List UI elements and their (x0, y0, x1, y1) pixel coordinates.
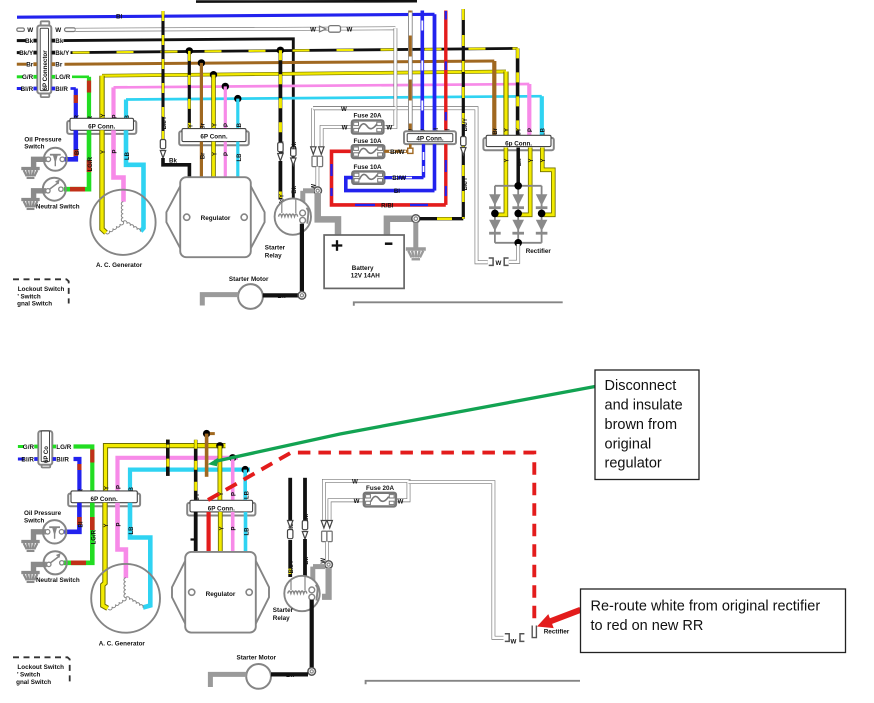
wire LB pin to Regulator (bottom) (244, 512, 248, 553)
wire LB pin to Regulator (236, 142, 239, 178)
wire Bk/Y lower into relay (bottom) (288, 540, 292, 577)
terminal ring (starter motor) (298, 292, 306, 300)
wire Bk lower into relay (bottom) (303, 539, 307, 577)
svg-text:P: P (232, 492, 238, 496)
connector 6P Connector (partial, bottom panel) (42, 432, 51, 468)
wire LB horizontal (bottom panel) (130, 470, 250, 492)
connector 4P Conn. (404, 131, 456, 144)
svg-text:Bl: Bl (116, 14, 123, 21)
svg-text:P: P (117, 485, 123, 489)
wire P vertical to 6P Conn (middle, bottom) (231, 458, 235, 501)
svg-text:Y: Y (212, 152, 218, 156)
wire R loop (R/Bl) fuse 10A-1 (332, 151, 446, 205)
connector bullet pair on Bk/Y relay wire (278, 143, 283, 152)
wire Br/W from fuse to 4P Conn (384, 150, 412, 153)
terminal ring (starter motor, bottom) (308, 668, 316, 676)
wire Bk cropped line (top edge) (196, 0, 417, 3)
wire W2 line (to rectifier) (313, 108, 488, 262)
svg-text:W: W (27, 27, 33, 34)
svg-text:6P Conn.: 6P Conn. (208, 506, 235, 513)
svg-text:A. C. Generator: A. C. Generator (99, 640, 146, 647)
junction dot Br at x201 (198, 59, 205, 66)
svg-text:LG/R: LG/R (55, 74, 70, 81)
svg-text:Bk/Y: Bk/Y (463, 118, 469, 131)
svg-text:LB: LB (129, 526, 135, 535)
connector bullet pair on Bk/Y (bottom) (288, 521, 293, 529)
wire Y rectifier phase 3 (542, 148, 553, 215)
wire Bk/Y battery negative (420, 217, 464, 220)
connector 6P Connector (left vertical) (41, 21, 50, 97)
component Battery 12V 14AH (324, 235, 404, 288)
svg-text:Rectifier: Rectifier (526, 248, 552, 255)
cable ground stem (battery) (413, 223, 418, 249)
wire P vertical to 6P Conn (middle) (224, 86, 227, 129)
component Regulator (bottom) (172, 561, 185, 624)
wire Bk/Y corner to 6p Conn (right) (516, 48, 520, 135)
cable battery - to frame (387, 219, 412, 236)
dashed box: other switches (top panel) (13, 279, 69, 303)
wire LG/R vertical to 6P Conn (87, 77, 91, 119)
wire Bl/W from fuse to 4P Conn (384, 176, 423, 179)
svg-text:W: W (310, 27, 316, 34)
wire Bk jog into Regulator (163, 158, 189, 178)
svg-text:Starter: Starter (273, 607, 294, 614)
junction dot LB at x237 (234, 95, 241, 102)
wire P bus (horizontal) (114, 84, 530, 87)
wire Bl pin from 4P Conn (433, 144, 437, 191)
svg-text:R/Bl: R/Bl (381, 203, 394, 210)
junction dot Bk/Y at x280 (277, 47, 284, 54)
svg-text:Re-route white from original r: Re-route white from original rectifier (591, 599, 821, 615)
svg-text:Fuse 10A: Fuse 10A (354, 164, 382, 171)
wire W bus (horizontal) (65, 28, 76, 32)
svg-text:LG/R: LG/R (91, 529, 97, 544)
svg-text:G/R: G/R (23, 444, 35, 451)
svg-text:W: W (55, 27, 61, 34)
wire Y vertical to 6P Conn (middle) (211, 75, 216, 129)
svg-text:Regulator: Regulator (206, 591, 236, 598)
svg-text:6P Co: 6P Co (44, 446, 50, 463)
connector receptacle W (bottom) (322, 531, 327, 541)
svg-text:Battery: Battery (352, 265, 374, 272)
wire Bk/Y to Starter Relay (278, 50, 282, 142)
svg-text:Neutral Switch: Neutral Switch (36, 577, 80, 584)
wire LB vertical to 6P Conn (middle, bottom) (243, 470, 247, 501)
wire Bl/R corner to 6P Conn (bottom) (74, 459, 80, 491)
wire Bl bus (horizontal, top) (17, 14, 435, 17)
wire Br corner to 6p Conn (right) (492, 61, 496, 136)
frame line (cropped harness, bottom panel) (366, 681, 580, 685)
wire Bl/R vertical to 6P Conn (74, 89, 78, 119)
wire LB corner to 6p Conn (right) (540, 96, 544, 135)
svg-text:Y: Y (529, 159, 535, 163)
wire Y bus (horizontal) (102, 72, 506, 76)
connector bullet pair on Bk relay wire (291, 147, 296, 156)
wire P horizontal (bottom panel) (118, 458, 239, 491)
wire W drop from Fuse 20A (322, 127, 353, 146)
ground (oil switch, bottom) (21, 540, 39, 543)
wire W fuse-left drop (bottom) (330, 500, 364, 520)
svg-text:Rectifier: Rectifier (544, 629, 570, 636)
wire W to relay terminal (bottom) (325, 542, 329, 561)
svg-text:’ Switch: ’ Switch (17, 671, 41, 678)
annotation green leader line (disconnect brown) (215, 387, 596, 462)
connector bullet pair on Bk (bottom) (302, 521, 307, 530)
wire Y rectifier phase 2 (520, 148, 530, 215)
connector 6P Conn. (middle, bottom) (187, 503, 255, 516)
wire LB into A.C. Generator (bottom) (130, 503, 150, 608)
wire Bk pin to Regulator (bottom) (194, 512, 198, 553)
wire W to relay terminal (315, 167, 319, 188)
svg-text:regulator: regulator (605, 456, 662, 472)
wire Bk/Y stub (floating, bottom) (166, 440, 170, 476)
junction dot rectifier bottom (W) (514, 239, 522, 247)
svg-text:brown from: brown from (605, 417, 678, 433)
wire Y vertical to 6P Conn (99, 76, 104, 119)
junction dot Y (bottom) (216, 442, 223, 449)
svg-text:Oil Pressure: Oil Pressure (24, 510, 62, 517)
wire Bk/Y vertical to 6P Conn (middle) (188, 51, 191, 129)
wire LB bus (horizontal) (126, 96, 542, 99)
wire W top line (bottom panel) (324, 481, 409, 520)
wire LB vertical to 6P Conn (124, 100, 128, 119)
svg-text:Y: Y (101, 150, 107, 154)
svg-text:Br: Br (26, 62, 34, 69)
svg-text:Starter Motor: Starter Motor (237, 654, 277, 661)
ground (neutral switch) (21, 198, 39, 201)
svg-text:Y: Y (219, 527, 225, 531)
svg-text:12V 14AH: 12V 14AH (351, 272, 381, 279)
component Rectifier (diode bridge) (495, 185, 542, 187)
wire Bk rectifier centre (516, 148, 520, 186)
svg-text:Relay: Relay (265, 252, 282, 259)
ground (battery) (406, 247, 426, 251)
wire Bk from relay to starter motor ring (300, 224, 304, 292)
svg-text:LB: LB (245, 527, 251, 536)
junction dot P at x225 (222, 83, 229, 90)
cable starter motor lead (left) (202, 295, 238, 306)
svg-text:Br/W: Br/W (390, 149, 405, 156)
svg-text:Y: Y (505, 128, 511, 132)
component Regulator (original) (166, 186, 180, 248)
connector bullets W pair (311, 147, 316, 155)
svg-text:Bl: Bl (394, 188, 400, 195)
cable relay to battery + (318, 193, 338, 236)
wire ground lead (neutral switch, bottom) (34, 564, 47, 571)
svg-text:6P Conn.: 6P Conn. (200, 134, 227, 141)
junction dot LB (bottom) (242, 466, 249, 473)
wire Y pin to Regulator (bottom) (218, 512, 223, 553)
svg-text:Br: Br (493, 127, 499, 134)
annotation text box: Disconnect and insulate brown (595, 370, 699, 480)
svg-text:Bk: Bk (278, 293, 286, 300)
wire Y rectifier phase 1 (497, 148, 506, 215)
svg-text:G/R: G/R (22, 74, 34, 81)
svg-text:gnal Switch: gnal Switch (16, 679, 51, 686)
wire W re-routed to old rectifier (409, 482, 504, 638)
wire Bk to Starter Relay (bottom) (303, 478, 307, 520)
svg-text:Bk: Bk (517, 158, 523, 166)
svg-text:Bk/Y: Bk/Y (463, 177, 469, 190)
wire Bk/Y to 6P Conn (middle, bottom) (194, 440, 198, 501)
svg-text:4P Conn.: 4P Conn. (416, 135, 443, 142)
svg-text:Bk: Bk (25, 38, 34, 45)
svg-text:Fuse 20A: Fuse 20A (366, 485, 394, 492)
ground (neutral switch, bottom) (21, 571, 39, 574)
wire Bk bus (horizontal) (64, 39, 294, 200)
wire Bl/R row (left) (71, 87, 76, 90)
wire R/Bl vertical (to 4P Conn) (444, 11, 447, 132)
connector 6P Conn. (left) (67, 121, 136, 134)
svg-text:Y: Y (212, 123, 218, 127)
svg-text:P: P (232, 527, 238, 531)
junction dot Y at x213 (210, 71, 217, 78)
junction dot P (bottom) (229, 454, 236, 461)
wire Br/W vertical (to 4P Conn) (408, 11, 413, 132)
svg-text:Bk: Bk (55, 38, 64, 45)
wire Bl to Oil Pressure Switch (bottom) (64, 503, 79, 532)
svg-text:W: W (496, 260, 502, 267)
wire Y into A.C. Generator (102, 130, 106, 232)
svg-text:Fuse 10A: Fuse 10A (354, 138, 382, 145)
wire Bk/Y to Starter Relay (bottom) (288, 478, 292, 520)
connector bullet pair on Bk/Y x463 (461, 137, 466, 146)
svg-text:LB: LB (540, 127, 546, 136)
wire Bk/Y vertical (to battery negative) (462, 9, 465, 219)
svg-text:W: W (342, 125, 348, 132)
svg-text:P: P (224, 152, 230, 156)
svg-text:P: P (224, 123, 230, 127)
terminal ring (relay, bottom) (325, 561, 333, 569)
svg-text:Bk/Y: Bk/Y (19, 50, 34, 57)
annotation red arrow (to rectifier W) (537, 607, 582, 628)
svg-text:6P Connector: 6P Connector (42, 50, 49, 91)
component A.C. Generator (bottom) (91, 564, 160, 633)
svg-text:Y: Y (505, 158, 511, 162)
cable starter motor lead (bottom) (210, 674, 246, 687)
connector 6P Conn. (left, bottom) (68, 494, 140, 507)
junction dot Br stub (disconnected brown) (203, 430, 210, 437)
svg-text:LB: LB (237, 153, 243, 162)
junction dot rectifier phase1 (491, 210, 499, 218)
wire Bl vertical (to 4P Conn) (433, 14, 437, 131)
svg-text:and insulate: and insulate (605, 398, 683, 414)
wire Y horizontal (bottom panel) (106, 446, 226, 492)
component A.C. Generator (90, 190, 155, 255)
terminal ring (battery -) (412, 215, 420, 223)
svg-text:Bl: Bl (79, 521, 85, 527)
wire Y into A.C. Generator (bottom) (103, 503, 108, 609)
cable thick relay jumper (bottom) (313, 564, 325, 569)
cable thick relay jumper (303, 188, 314, 193)
wire W old rectifier stub (532, 626, 536, 638)
wire Bk starter motor to ring (bottom) (271, 672, 308, 676)
wire Bl/W vertical (to 4P Conn) (420, 11, 424, 132)
svg-text:W: W (347, 27, 353, 34)
svg-text:Switch: Switch (24, 143, 44, 150)
wire LG/R row (left) (72, 75, 89, 78)
svg-text:Switch: Switch (24, 517, 44, 524)
svg-text:’ Switch: ’ Switch (17, 293, 41, 300)
svg-text:Bl/R: Bl/R (56, 456, 69, 463)
connector 6p Conn. (right) (483, 138, 553, 150)
svg-text:Bk/Y: Bk/Y (162, 116, 168, 129)
svg-text:Lockout Switch: Lockout Switch (18, 286, 65, 293)
svg-text:Relay: Relay (273, 615, 290, 622)
wire Bk from relay to starter motor (bottom) (310, 600, 314, 668)
svg-text:gnal Switch: gnal Switch (17, 300, 52, 307)
junction dot rectifier phase3 (538, 210, 546, 218)
svg-text:Starter: Starter (265, 244, 286, 251)
svg-text:Y: Y (104, 524, 110, 528)
svg-text:Bk: Bk (292, 141, 298, 149)
svg-text:W: W (352, 479, 358, 486)
svg-text:Neutral Switch: Neutral Switch (36, 203, 80, 210)
svg-text:Bl/W: Bl/W (392, 175, 406, 182)
wire Bl to Oil Pressure Switch (65, 130, 76, 159)
wire LB into A.C. Generator (126, 130, 144, 231)
wire ground lead (oil pressure switch) (34, 159, 47, 167)
svg-text:Fuse 20A: Fuse 20A (354, 113, 382, 120)
wire W fuse20A right leg (383, 28, 395, 127)
svg-text:W: W (397, 498, 403, 505)
junction dot rectifier phase2 (514, 210, 522, 218)
wire ground lead (neutral switch) (34, 191, 46, 199)
connector receptacle W (312, 156, 317, 166)
svg-text:LG/R: LG/R (88, 156, 94, 171)
wire W line upper (to fuse area) (313, 106, 395, 110)
wire Br bus (horizontal) (65, 61, 495, 64)
wire P corner to 6p Conn (right) (527, 84, 531, 136)
wire LG/R to Neutral Switch (64, 130, 89, 189)
wire LG/R to Neutral Switch (bottom) (64, 503, 93, 563)
svg-text:W: W (354, 498, 360, 505)
frame line (cropped harness, top panel) (354, 302, 563, 306)
svg-text:Disconnect: Disconnect (605, 378, 677, 394)
ground (oil pressure switch) (21, 167, 39, 170)
svg-text:Bk: Bk (169, 158, 177, 165)
svg-text:to red on new RR: to red on new RR (591, 618, 704, 634)
svg-text:P: P (117, 523, 123, 527)
wire LB vertical to 6P Conn (middle) (236, 99, 239, 129)
svg-text:LB: LB (244, 490, 250, 499)
wire Bk starter motor to ring (263, 293, 298, 297)
svg-text:Br: Br (200, 152, 206, 159)
wire P pin to Regulator (bottom) (231, 512, 235, 553)
svg-text:Bk: Bk (304, 556, 310, 564)
svg-text:Regulator: Regulator (201, 215, 231, 222)
junction dot rectifier top (Bk) (514, 182, 522, 190)
svg-text:Y: Y (219, 492, 225, 496)
6P Connector pin stubs and labels (17, 28, 25, 31)
svg-text:A. C. Generator: A. C. Generator (96, 262, 143, 269)
wire P vertical to 6P Conn (111, 87, 115, 118)
wire Br vertical to 6P Conn (middle) (200, 63, 203, 129)
svg-text:Bk: Bk (286, 672, 294, 679)
svg-text:Bk/Y: Bk/Y (55, 50, 70, 57)
svg-text:Y: Y (105, 486, 111, 490)
svg-text:6P Conn.: 6P Conn. (91, 496, 118, 503)
wire P into A.C. Generator (114, 130, 124, 202)
svg-text:original: original (605, 436, 652, 452)
connector bullet pair on Bk/Y x163 (160, 140, 165, 149)
svg-text:Bk: Bk (292, 185, 298, 193)
svg-text:6P Conn.: 6P Conn. (88, 124, 115, 131)
annotation text box: Re-route white (581, 589, 846, 653)
wire Bl loop fuse 10A-2 (346, 178, 435, 191)
svg-text:Starter Motor: Starter Motor (229, 276, 269, 283)
cable stub (battery removed) (322, 568, 329, 597)
wire R/Bl pin from 4P Conn (444, 144, 447, 205)
svg-text:Br: Br (55, 62, 63, 69)
svg-text:LG/R: LG/R (56, 444, 71, 451)
wire Bl/W pin from 4P Conn (422, 144, 425, 178)
wire Bk/Y long vertical (x163) (161, 11, 164, 140)
wire W rectifier output (509, 244, 518, 262)
annotation red dashed route (re-route white) (208, 453, 534, 621)
terminal ring (relay +) (314, 187, 322, 195)
svg-text:P: P (528, 128, 534, 132)
wire Br stub (disconnected from regulator) (205, 434, 209, 477)
wire P pin to Regulator (224, 142, 227, 178)
connector bullets W pair (bottom) (321, 521, 326, 529)
wire Bk/Y (lower) into Starter Relay (278, 161, 282, 200)
wire Br pin to Regulator (200, 142, 203, 178)
junction dot Bk/Y at x189 (186, 47, 193, 54)
svg-text:W: W (386, 125, 392, 132)
svg-text:W: W (341, 106, 347, 113)
wire Y vertical to 6P Conn (middle, bottom) (217, 446, 222, 501)
6P Connector pin stubs and labels (bottom) (18, 445, 24, 448)
svg-text:Bl/R: Bl/R (21, 456, 34, 463)
svg-text:Bl: Bl (75, 149, 81, 155)
wire Bk/Y bus (horizontal) (71, 48, 518, 52)
wire ground lead (oil switch, bottom) (34, 532, 47, 541)
wire Y corner to 6p Conn (right) (503, 72, 508, 136)
svg-text:Bl/R: Bl/R (21, 86, 34, 93)
wire LG/R corner to 6P Conn (bottom) (74, 447, 93, 492)
dashed box: other switches (bottom panel) (13, 657, 70, 681)
wire Y pin to Regulator (211, 142, 216, 178)
svg-text:Y: Y (541, 159, 547, 163)
svg-text:Lockout Switch: Lockout Switch (17, 664, 64, 671)
wire R pin to Regulator (new red wire) (207, 512, 211, 553)
svg-text:W: W (511, 639, 517, 646)
wire Br stub remnant tick (210, 432, 215, 435)
svg-text:LB: LB (125, 151, 131, 160)
svg-text:6p Conn.: 6p Conn. (505, 141, 532, 148)
wire P into A.C. Generator (bottom) (118, 503, 126, 578)
svg-text:Y: Y (101, 114, 107, 118)
svg-text:Bk/Y: Bk/Y (289, 560, 295, 573)
connector 6P Conn. (middle) (179, 131, 249, 145)
svg-text:P: P (112, 150, 118, 154)
svg-text:Bl/R: Bl/R (55, 86, 68, 93)
wire W drop to connector (from W2 line) (311, 108, 315, 146)
